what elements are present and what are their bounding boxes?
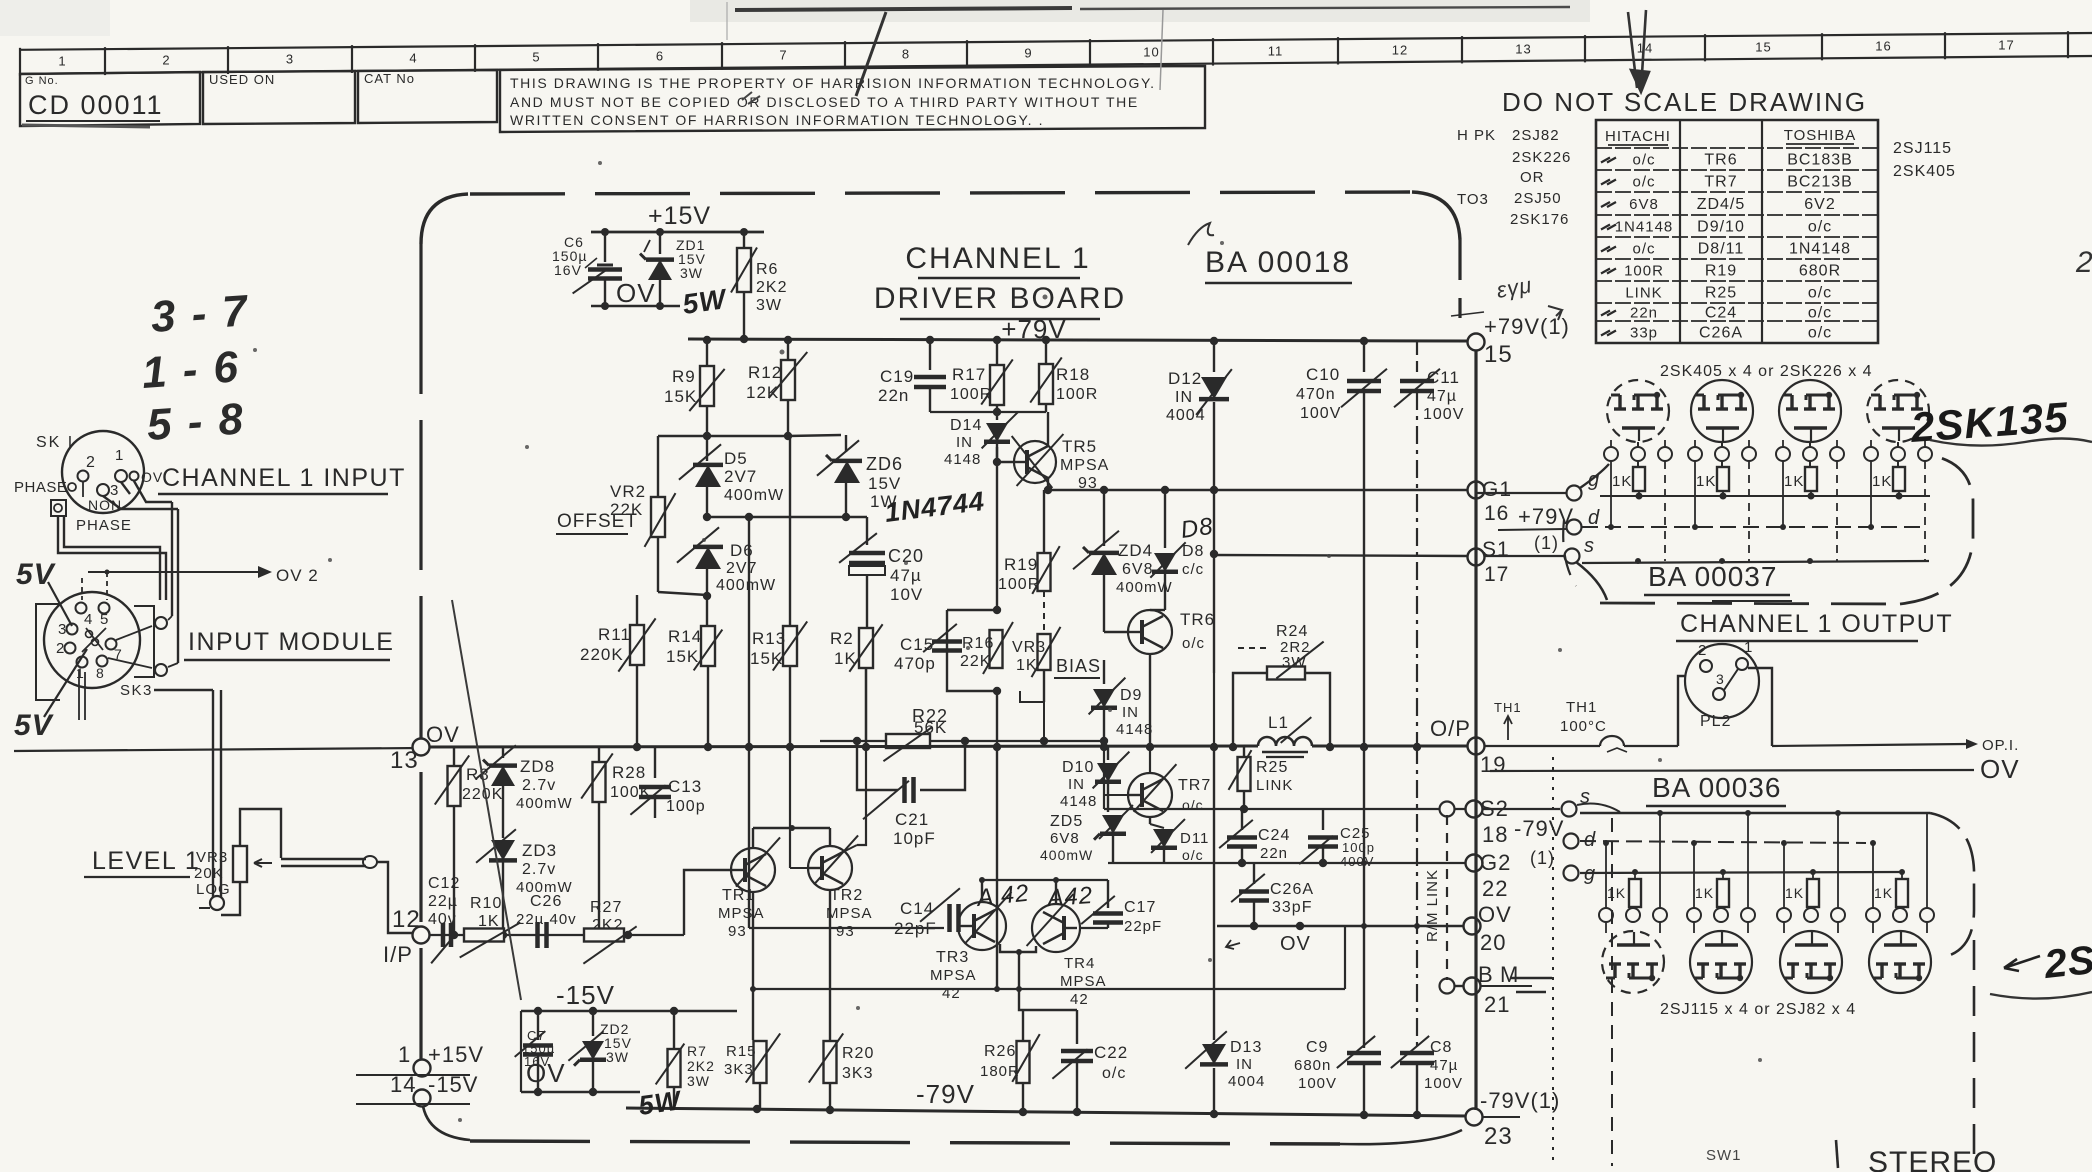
svg-text:21: 21: [1484, 992, 1510, 1017]
zener ZD5 6V8: [1040, 805, 1133, 863]
svg-text:2SK226: 2SK226: [1512, 149, 1571, 166]
svg-text:400V: 400V: [1340, 854, 1374, 869]
table side note 2SJ115 2SK405: [1893, 140, 1956, 180]
resistor R25 LINK: [1229, 746, 1294, 809]
svg-text:180R: 180R: [980, 1063, 1020, 1080]
svg-text:D12: D12: [1168, 369, 1202, 388]
svg-text:C21: C21: [895, 810, 929, 829]
svg-text:HITACHI: HITACHI: [1605, 128, 1671, 145]
svg-text:C12: C12: [428, 875, 460, 892]
transistor TR7 o/c: [1104, 741, 1211, 817]
bus under gate resistors top: [1600, 495, 1930, 497]
svg-text:15K: 15K: [666, 647, 699, 666]
svg-text:100R: 100R: [1624, 263, 1664, 280]
svg-text:100°C: 100°C: [1560, 718, 1607, 735]
pin 19 O/P: [1430, 700, 1522, 777]
svg-text:4004: 4004: [1228, 1073, 1265, 1090]
pin 23 -79V(1): [1466, 1088, 1561, 1150]
svg-text:c/c: c/c: [1182, 561, 1204, 578]
handwritten pin pairs 3-7 1-6 5-8: [140, 286, 251, 450]
svg-text:ZD6: ZD6: [866, 454, 903, 474]
MOSFET output N4: [1864, 380, 1932, 461]
svg-text:C14: C14: [900, 899, 934, 918]
svg-text:OV: OV: [1280, 933, 1311, 955]
svg-text:1K: 1K: [1872, 473, 1892, 490]
pin 17 S1: [1213, 538, 1510, 586]
capacitor C13 100p: [630, 748, 705, 818]
svg-text:R28: R28: [612, 763, 646, 782]
transistor TR2 MPSA 93: [790, 747, 873, 940]
svg-text:4148: 4148: [944, 451, 981, 468]
svg-text:OV: OV: [616, 278, 656, 308]
svg-text:4004: 4004: [1166, 407, 1206, 424]
scan speckles: [253, 161, 1762, 1122]
svg-text:5: 5: [100, 611, 109, 628]
svg-text:1: 1: [58, 53, 66, 68]
resistor R26 180R: [980, 989, 1040, 1112]
svg-text:d: d: [1588, 507, 1600, 529]
svg-text:C9: C9: [1306, 1039, 1328, 1056]
svg-text:D8/11: D8/11: [1698, 241, 1745, 258]
svg-text:2SJ50: 2SJ50: [1514, 190, 1562, 207]
handwritten 1N4744: [883, 486, 987, 528]
resistor 1K gate P3: [1785, 869, 1819, 915]
svg-text:22pF: 22pF: [894, 919, 937, 938]
pin 16 G1: [1468, 478, 1513, 525]
resistor R14 15K: [666, 626, 722, 747]
svg-text:OV: OV: [141, 469, 163, 485]
capacitor C9 680n 100V: [1294, 746, 1381, 1115]
svg-text:400mW: 400mW: [716, 577, 776, 594]
capacitor C15 470p with resistor R16 22K box: [894, 606, 1013, 695]
svg-text:1: 1: [1744, 639, 1753, 656]
svg-text:o/c: o/c: [1808, 285, 1832, 302]
wire bundle SK1 to SK3: [51, 481, 178, 667]
svg-text:1K: 1K: [1874, 885, 1893, 901]
svg-text:OR: OR: [1520, 169, 1545, 186]
resistor 1K gate N1: [1612, 461, 1645, 500]
svg-text:6V8: 6V8: [1050, 830, 1080, 847]
svg-text:THIS DRAWING IS THE PROPER: THIS DRAWING IS THE PROPERTY OF HARRISIO…: [510, 75, 1156, 91]
svg-text:o/c: o/c: [1182, 847, 1204, 863]
svg-text:TR4: TR4: [1064, 955, 1095, 972]
diode D9 1N4148: [1089, 660, 1154, 741]
handwritten 2SK135: [1908, 393, 2092, 451]
capacitor C10 470n 100V: [1296, 341, 1387, 746]
svg-text:4: 4: [409, 51, 417, 66]
svg-text:16: 16: [1484, 502, 1509, 525]
svg-text:C24: C24: [1258, 827, 1290, 844]
svg-text:C15: C15: [900, 635, 934, 654]
svg-text:LINK: LINK: [1625, 285, 1662, 302]
capacitor C6: [552, 232, 622, 306]
svg-text:1K: 1K: [1785, 885, 1804, 901]
svg-text:47µ: 47µ: [1430, 1057, 1458, 1074]
label LEVEL 1: [84, 847, 200, 877]
svg-text:BA 00018: BA 00018: [1205, 246, 1351, 279]
rail OV mid: [1217, 922, 1464, 955]
svg-text:3: 3: [58, 621, 67, 638]
zener ZD6 15V 1W: [817, 435, 903, 517]
title block CAT No: [358, 70, 497, 123]
capacitor C26 22u 40v: [516, 893, 577, 948]
svg-text:R19: R19: [1705, 263, 1737, 280]
svg-text:8: 8: [902, 47, 910, 62]
rail G1: [1044, 486, 1468, 494]
svg-text:23: 23: [1484, 1123, 1513, 1150]
svg-text:2SK405: 2SK405: [1893, 163, 1956, 180]
capacitor C12 22u 40v: [428, 875, 460, 963]
pin 14 -15V: [356, 1072, 478, 1107]
svg-text:B: B: [1478, 962, 1494, 987]
svg-text:R25: R25: [1705, 285, 1737, 302]
capacitor C25 100p 400V: [1299, 809, 1375, 869]
MOSFET output P1: [1599, 840, 1667, 993]
svg-text:3W: 3W: [756, 297, 782, 314]
svg-text:C8: C8: [1430, 1039, 1452, 1056]
svg-text:1 - 6: 1 - 6: [140, 342, 241, 398]
vertical wire x997 mid: [996, 447, 998, 989]
svg-text:TR1: TR1: [722, 887, 755, 904]
handwritten 5W top: [681, 283, 730, 320]
zener ZD1: [640, 232, 706, 306]
wire D5D6 node down to base line: [748, 517, 750, 928]
svg-text:2: 2: [1698, 642, 1707, 659]
label BA 00018: [1205, 246, 1352, 283]
svg-text:MPSA: MPSA: [1060, 457, 1109, 474]
resistor R8 220K: [435, 748, 504, 935]
svg-text:3W: 3W: [680, 265, 703, 281]
diode D13 1N4004: [1185, 673, 1265, 1114]
svg-text:R15: R15: [726, 1043, 757, 1060]
title block CD 00011: [20, 72, 200, 127]
diode D6 2V7: [677, 506, 776, 627]
diode D14 1N4148: [944, 412, 1018, 468]
svg-text:13: 13: [390, 747, 419, 774]
rail -79V bottom: [626, 1079, 1468, 1119]
label CHANNEL 1 OUTPUT: [1676, 610, 1953, 641]
svg-text:BA 00036: BA 00036: [1652, 772, 1781, 803]
svg-text:I/P: I/P: [383, 942, 413, 967]
resistor 1K gate N4: [1872, 461, 1905, 500]
label 5V lower: [14, 649, 87, 742]
svg-text:4148: 4148: [1060, 793, 1097, 810]
svg-text:3W: 3W: [687, 1073, 710, 1089]
wire emitter row y989: [750, 926, 1345, 992]
svg-text:-15V: -15V: [428, 1072, 478, 1097]
scan dark strip top: [735, 8, 1072, 10]
MOSFET output N2: [1688, 380, 1756, 461]
svg-text:C22: C22: [1094, 1043, 1128, 1062]
svg-text:2K2: 2K2: [756, 279, 787, 296]
input module bracket right: [108, 606, 213, 690]
svg-text:22µ: 22µ: [428, 893, 458, 910]
svg-text:d: d: [1584, 829, 1596, 851]
label SW1: [1706, 1147, 1742, 1164]
connector PL2: [1678, 639, 1772, 746]
diode D10 1N4148: [1060, 747, 1129, 812]
power rail +15V top: [591, 202, 764, 236]
resistor R11 220K: [580, 595, 656, 747]
svg-text:PHASE: PHASE: [76, 517, 132, 534]
resistor R21 1K: [830, 624, 883, 747]
svg-text:18: 18: [1482, 822, 1508, 847]
svg-text:ZD8: ZD8: [520, 757, 555, 776]
svg-text:400mW: 400mW: [1040, 847, 1093, 863]
svg-text:C26A: C26A: [1270, 881, 1314, 898]
svg-text:16: 16: [1875, 39, 1891, 54]
link R/M LINK dashed: [1424, 815, 1447, 980]
svg-text:R11: R11: [598, 625, 631, 644]
svg-text:3 - 7: 3 - 7: [149, 286, 251, 342]
svg-text:PL2: PL2: [1700, 713, 1731, 730]
svg-text:16V: 16V: [554, 262, 582, 278]
svg-text:9: 9: [1024, 46, 1032, 61]
capacitor C24 22n: [1219, 809, 1290, 863]
svg-text:1K: 1K: [1696, 473, 1716, 490]
svg-text:LEVEL 1: LEVEL 1: [92, 847, 200, 875]
replacement table: [1596, 120, 1878, 343]
svg-text:17: 17: [1484, 563, 1509, 586]
svg-text:33p: 33p: [1630, 325, 1658, 342]
svg-text:TR3: TR3: [936, 949, 969, 966]
svg-text:15K: 15K: [664, 387, 697, 406]
diode D12 1N4004: [1166, 341, 1232, 490]
svg-text:C17: C17: [1124, 899, 1156, 916]
svg-text:CD 00011: CD 00011: [28, 90, 164, 120]
svg-text:G2: G2: [1480, 850, 1511, 875]
svg-text:5V: 5V: [14, 709, 55, 742]
svg-text:AND MUST NOT BE COPIED OR: AND MUST NOT BE COPIED OR DISCLOSED TO A…: [510, 94, 1139, 110]
svg-text:-79V: -79V: [916, 1079, 975, 1109]
svg-text:CHANNEL 1: CHANNEL 1: [905, 242, 1090, 275]
handwritten slash near ruler 3: [742, 12, 886, 104]
svg-text:CHANNEL 1 INPUT: CHANNEL 1 INPUT: [162, 464, 406, 492]
wire TR1 TR2 tops: [753, 747, 866, 852]
potentiometer VR3 1K bias: [1012, 627, 1061, 702]
svg-text:C11: C11: [1427, 368, 1460, 387]
svg-text:G No.: G No.: [25, 75, 59, 87]
svg-text:ZD4/5: ZD4/5: [1697, 196, 1746, 213]
capacitor C22 o/c: [1023, 1010, 1128, 1112]
svg-text:2: 2: [86, 454, 96, 471]
capacitor C17: [1080, 880, 1162, 935]
svg-text:2: 2: [2075, 246, 2092, 279]
svg-text:1K: 1K: [1612, 473, 1632, 490]
transistor TR5 MPSA 93: [993, 412, 1110, 492]
svg-text:M: M: [1500, 962, 1519, 987]
svg-text:7: 7: [779, 48, 787, 63]
svg-text:5 - 8: 5 - 8: [145, 394, 246, 450]
svg-text:R7: R7: [687, 1043, 707, 1059]
svg-text:19: 19: [1480, 752, 1506, 777]
svg-text:2.7v: 2.7v: [522, 777, 556, 794]
svg-text:TR5: TR5: [1062, 437, 1097, 456]
svg-text:47µ: 47µ: [1427, 388, 1457, 405]
svg-text:TOSHIBA: TOSHIBA: [1784, 127, 1857, 144]
svg-text:R14: R14: [668, 627, 702, 646]
diode D8 o/c: [1150, 490, 1204, 610]
svg-text:C26: C26: [530, 893, 562, 910]
label BIAS: [1054, 656, 1101, 678]
rail 0V output: [14, 743, 1468, 751]
svg-text:93: 93: [728, 923, 747, 940]
svg-text:S1: S1: [1482, 538, 1510, 561]
resistor R12 12K: [746, 341, 807, 436]
wire to TR1 base: [684, 870, 731, 935]
svg-text:6V2: 6V2: [1804, 196, 1835, 213]
svg-text:ZD3: ZD3: [522, 841, 557, 860]
resistor R19 100R: [998, 490, 1060, 635]
svg-text:C10: C10: [1306, 365, 1340, 384]
scan shading top band: [690, 0, 1590, 22]
label CHANNEL 1 INPUT: [158, 464, 406, 494]
svg-text:3W: 3W: [1282, 654, 1307, 671]
svg-text:D9: D9: [1120, 687, 1142, 704]
bus line right edge pins: [1474, 350, 1477, 1110]
label 2SK405 x4 note: [1660, 363, 1873, 380]
svg-text:SK3: SK3: [120, 682, 153, 699]
svg-text:USED ON: USED ON: [209, 72, 275, 87]
svg-text:A42: A42: [1045, 882, 1094, 912]
label 5V upper: [16, 558, 72, 626]
svg-text:100R: 100R: [950, 386, 992, 403]
svg-text:100p: 100p: [1342, 840, 1375, 855]
rail OV right: [1490, 754, 2020, 784]
wire R13 to TR2: [865, 668, 867, 745]
node OV in regulator box: [591, 278, 680, 310]
handwritten D8 script: [1179, 513, 1215, 544]
svg-text:220K: 220K: [462, 786, 503, 803]
capacitor C14 22pF: [749, 888, 960, 938]
svg-text:15: 15: [1484, 341, 1513, 368]
svg-text:LOG: LOG: [196, 881, 231, 898]
wire pin12 row: [421, 931, 684, 939]
svg-text:OV: OV: [526, 1058, 566, 1088]
svg-text:R9: R9: [672, 367, 696, 386]
svg-text:1K: 1K: [1607, 885, 1626, 901]
svg-text:6V8: 6V8: [1629, 196, 1659, 213]
label OFFSET: [556, 511, 638, 534]
svg-text:5: 5: [532, 50, 540, 65]
svg-text:2SK405 x 4 or 2SK226 x 4: 2SK405 x 4 or 2SK226 x 4: [1660, 363, 1873, 380]
svg-text:3K3: 3K3: [842, 1065, 873, 1082]
power rail +79V: [688, 335, 1468, 345]
pin 20 OV: [1464, 902, 1512, 955]
svg-text:5W: 5W: [681, 283, 730, 320]
node OV 2 arrow: [82, 566, 319, 600]
svg-text:o/c: o/c: [1182, 635, 1205, 652]
resistor R10 1K: [460, 895, 521, 958]
capacitor C20 47u 10V: [839, 517, 924, 630]
svg-text:100V: 100V: [1423, 406, 1464, 423]
connector SK3: [44, 592, 153, 699]
pin 13 OV: [390, 722, 460, 774]
svg-text:OV: OV: [1980, 754, 2020, 784]
wires output bottom module: [1482, 786, 1930, 885]
svg-text:1: 1: [76, 665, 85, 681]
svg-text:2K2: 2K2: [687, 1058, 715, 1074]
svg-text:DO NOT SCALE DRAWING: DO NOT SCALE DRAWING: [1502, 87, 1867, 117]
driver board dashed border: [421, 192, 1462, 1144]
pin 22 G2: [1466, 850, 1512, 901]
handwritten arrow near ruler 14: [1628, 10, 1649, 92]
capacitor C21 10pF: [857, 741, 965, 848]
svg-text:22n: 22n: [1630, 305, 1658, 322]
svg-text:R27: R27: [590, 899, 622, 916]
svg-text:C26A: C26A: [1699, 325, 1743, 342]
svg-text:100R: 100R: [998, 576, 1040, 593]
rail S2: [1104, 802, 1466, 817]
svg-text:15: 15: [1755, 40, 1771, 55]
svg-text:13: 13: [1515, 42, 1531, 57]
svg-text:WRITTEN CONSENT OF HARRISON: WRITTEN CONSENT OF HARRISON INFORMATION …: [510, 112, 1044, 128]
svg-text:22K: 22K: [960, 653, 991, 670]
svg-text:ZD5: ZD5: [1050, 813, 1083, 830]
svg-text:BC183B: BC183B: [1787, 152, 1853, 169]
dashed boundary x1553: [1552, 757, 1554, 1166]
svg-text:IN: IN: [1122, 704, 1139, 721]
zener ZD8 2.7v: [476, 745, 573, 838]
svg-text:VR3: VR3: [1012, 639, 1046, 656]
svg-text:IN: IN: [1175, 389, 1193, 406]
zener ZD3 2.7v: [476, 829, 573, 935]
svg-text:100p: 100p: [666, 798, 706, 815]
svg-text:TR6: TR6: [1704, 152, 1737, 169]
svg-text:-15V: -15V: [556, 980, 615, 1010]
dashed boundary x1612: [1611, 818, 1613, 1166]
transistor TR1 MPSA 93: [718, 837, 780, 940]
svg-text:R13: R13: [752, 629, 786, 648]
wire junction row y517: [707, 513, 867, 521]
resistor R20 3K3: [809, 890, 875, 1110]
svg-text:D10: D10: [1062, 759, 1094, 776]
svg-text:o/c: o/c: [1102, 1065, 1126, 1082]
svg-text:o/c: o/c: [1182, 797, 1204, 813]
transistor TR4 MPSA 42: [1027, 894, 1107, 1008]
svg-text:680R: 680R: [1799, 263, 1841, 280]
svg-text:R2: R2: [830, 629, 854, 648]
resistor R24 2R2 3W loop: [1233, 623, 1330, 746]
wire twisted pair to I/P: [281, 856, 413, 933]
svg-text:TR7: TR7: [1178, 777, 1211, 794]
svg-text:400mW: 400mW: [724, 487, 784, 504]
svg-text:22pF: 22pF: [1124, 918, 1162, 935]
svg-text:3: 3: [1716, 671, 1725, 687]
resistor 1K gate P2: [1695, 869, 1729, 915]
svg-text:100V: 100V: [1298, 1075, 1337, 1092]
svg-text:2.7v: 2.7v: [522, 861, 556, 878]
svg-text:2SJ82: 2SJ82: [1512, 127, 1560, 144]
svg-text:2: 2: [56, 640, 65, 657]
svg-text:D11: D11: [1180, 830, 1209, 847]
resistor R17 100R: [930, 341, 1046, 416]
pin 1 +15V: [356, 969, 484, 1077]
svg-text:OP.I.: OP.I.: [1982, 737, 2019, 754]
svg-text:D5: D5: [724, 449, 748, 468]
input module bracket left: [36, 604, 60, 700]
svg-text:400mW: 400mW: [516, 795, 573, 812]
svg-text:R8: R8: [466, 765, 490, 784]
wire O/P to right edge: [1652, 737, 2019, 754]
svg-text:100V: 100V: [1424, 1075, 1463, 1092]
svg-text:R18: R18: [1056, 365, 1090, 384]
pin 15 +79V(1): [1451, 312, 1570, 368]
zener ZD2 15V 3W: [568, 1011, 632, 1092]
svg-text:R26: R26: [984, 1043, 1016, 1060]
transistor TR3 MPSA 42: [930, 892, 1011, 1002]
svg-text:8: 8: [96, 665, 105, 681]
